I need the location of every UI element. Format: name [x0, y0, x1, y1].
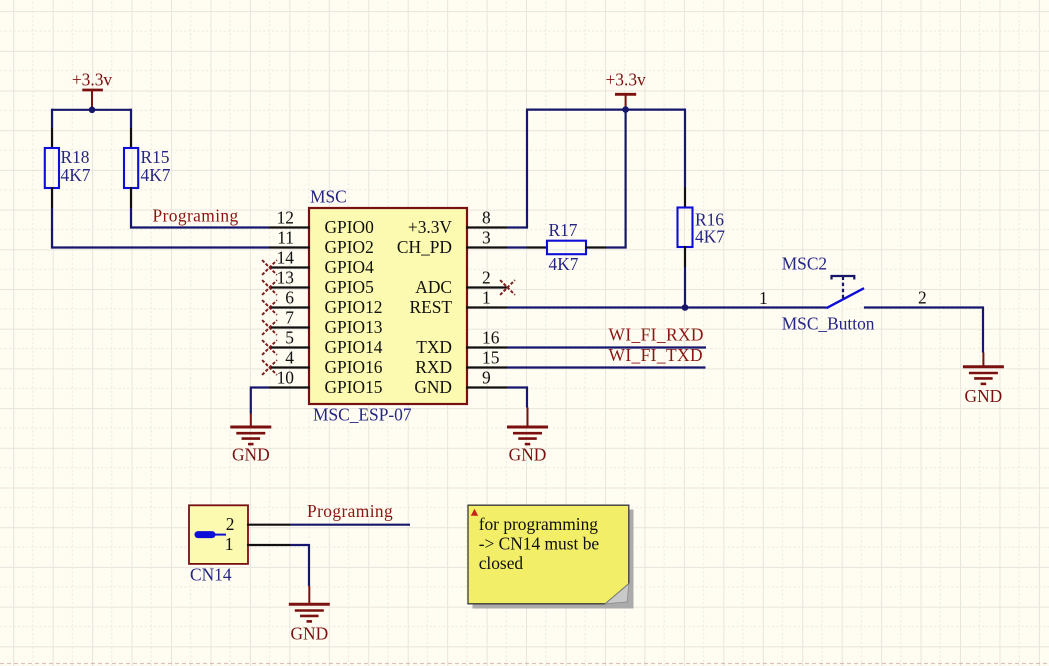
svg-text:1: 1: [759, 288, 768, 308]
pin 4 GPIO16 (left): [269, 347, 383, 377]
pin stub R15 bottom: [130, 187, 132, 208]
connector CN14 body: [189, 505, 248, 564]
junction R16 / REST: [682, 304, 689, 311]
pin 12 GPIO0 (left): [269, 207, 374, 237]
wire pin 9 to ground: [507, 388, 527, 408]
wire R18 bottom to pin 11: [52, 208, 269, 248]
svg-text:Programing: Programing: [307, 501, 393, 521]
pin stub R17 left: [527, 246, 548, 248]
ground at button: [963, 353, 1004, 407]
wire +3.3v rail to R16 top: [526, 110, 685, 188]
svg-text:GND: GND: [965, 386, 1003, 406]
junction at +3.3v left: [89, 107, 96, 114]
power +3.3v (left): [72, 70, 113, 109]
svg-text:RXD: RXD: [415, 357, 452, 377]
pin 5 GPIO14 (left): [269, 327, 383, 357]
resistor R16: [678, 208, 693, 248]
svg-text:-> CN14 must be: -> CN14 must be: [479, 534, 600, 554]
resistor R18: [45, 148, 59, 188]
pin 15 RXD (right): [415, 347, 507, 377]
svg-text:1: 1: [482, 287, 491, 307]
svg-text:16: 16: [482, 327, 500, 347]
wire +3.3v rail to R18 top: [51, 109, 53, 128]
svg-text:6: 6: [285, 287, 294, 307]
pin stub R15 top: [130, 128, 132, 149]
svg-text:4K7: 4K7: [141, 165, 171, 185]
svg-text:2: 2: [482, 267, 491, 287]
svg-text:4K7: 4K7: [695, 226, 725, 246]
note marker triangle: [471, 509, 478, 516]
resistor R15: [124, 148, 138, 188]
pin 8 +3.3V (right): [408, 207, 507, 237]
wire R16 bottom to REST net: [684, 267, 686, 308]
wire +3.3v rail to R15 top: [130, 109, 132, 128]
wire pin 10 to ground: [251, 388, 269, 414]
svg-text:9: 9: [482, 367, 491, 387]
ground below pin 10: [230, 414, 271, 465]
svg-text:WI_FI_RXD: WI_FI_RXD: [609, 325, 704, 345]
svg-text:R15: R15: [141, 147, 170, 167]
svg-text:MSC_Button: MSC_Button: [782, 313, 875, 333]
wire REST (pin 1) to button: [507, 306, 826, 308]
svg-text:ADC: ADC: [415, 277, 452, 297]
svg-text:GPIO2: GPIO2: [325, 237, 374, 257]
wire button to GND corner: [864, 308, 983, 353]
wire TXD net: [507, 346, 706, 348]
wire R15 bottom to pin 12: [131, 208, 269, 228]
wire CN14 pin 1 to ground: [290, 545, 309, 586]
no-connect X at pin 14: [262, 260, 277, 275]
pin 13 GPIO5 (left): [269, 267, 374, 297]
note text: [479, 514, 600, 573]
pin 7 GPIO13 (left): [269, 307, 383, 337]
pin 6 GPIO12 (left): [269, 287, 382, 317]
pin stub R16 top: [684, 188, 686, 209]
svg-text:GND: GND: [290, 623, 328, 643]
svg-text:4: 4: [285, 347, 294, 367]
svg-text:8: 8: [482, 207, 491, 227]
svg-text:3: 3: [482, 227, 491, 247]
svg-text:TXD: TXD: [416, 337, 452, 357]
svg-text:GPIO4: GPIO4: [325, 257, 375, 277]
pin 2 ADC (right): [415, 267, 507, 297]
svg-text:+3.3v: +3.3v: [605, 70, 646, 90]
pin 14 GPIO4 (left): [269, 247, 374, 277]
note shadow: [473, 510, 634, 609]
ground below pin 9: [507, 408, 548, 465]
no-connect X at pin 6: [262, 300, 277, 315]
junction at +3.3v right: [622, 106, 629, 113]
svg-text:+3.3v: +3.3v: [72, 70, 113, 90]
no-connect X at pin 13: [262, 280, 277, 295]
svg-text:11: 11: [277, 227, 294, 247]
svg-text:closed: closed: [479, 553, 524, 573]
no-connect X at pin 7: [262, 320, 277, 335]
svg-text:1: 1: [225, 534, 234, 554]
pin 1 REST (right): [409, 287, 507, 317]
svg-text:GND: GND: [232, 445, 270, 465]
svg-text:Programing: Programing: [153, 206, 239, 226]
no-connect X at pin 2 (ADC): [500, 280, 515, 295]
svg-text:2: 2: [918, 287, 927, 307]
wire pin 8 up to +3.3v rail: [507, 110, 527, 228]
pin stub R16 bottom: [684, 246, 686, 267]
svg-text:10: 10: [277, 367, 295, 387]
wire RXD net: [507, 366, 706, 368]
svg-text:4K7: 4K7: [61, 165, 91, 185]
svg-text:12: 12: [277, 207, 294, 227]
svg-text:GND: GND: [414, 377, 452, 397]
svg-text:R18: R18: [61, 147, 90, 167]
svg-text:CN14: CN14: [190, 565, 232, 585]
svg-text:GPIO5: GPIO5: [325, 277, 375, 297]
no-connect X at pin 5: [262, 340, 277, 355]
pin stub R18 top: [51, 128, 53, 149]
svg-text:5: 5: [285, 327, 294, 347]
wire top rail between R18 and R15: [52, 109, 131, 111]
note folded corner: [605, 584, 628, 604]
resistor R17: [547, 241, 586, 255]
wire R17 to +3.3v junction: [606, 111, 626, 248]
svg-text:15: 15: [482, 347, 500, 367]
IC U? MSC_ESP-07 body: [309, 208, 467, 404]
svg-text:MSC: MSC: [310, 187, 347, 207]
jumper glyph inside CN14: [198, 531, 226, 538]
svg-text:4K7: 4K7: [549, 254, 579, 274]
svg-text:GPIO15: GPIO15: [325, 377, 383, 397]
pin stub R17 right: [585, 246, 606, 248]
pin 1 of CN14: [225, 534, 290, 554]
pin stub R18 bottom: [51, 187, 53, 208]
svg-text:R17: R17: [549, 220, 578, 240]
svg-text:WI_FI_TXD: WI_FI_TXD: [609, 345, 703, 365]
svg-text:GPIO12: GPIO12: [325, 297, 383, 317]
wire pin 3 to R17: [507, 246, 527, 248]
svg-text:MSC_ESP-07: MSC_ESP-07: [313, 405, 412, 425]
svg-text:GPIO16: GPIO16: [325, 357, 383, 377]
svg-text:REST: REST: [409, 297, 452, 317]
svg-text:for programming: for programming: [479, 514, 599, 534]
svg-text:14: 14: [277, 247, 295, 267]
svg-text:2: 2: [226, 514, 235, 534]
pin 16 TXD (right): [416, 327, 507, 357]
wire Programing net from CN14 pin 2: [290, 524, 410, 526]
svg-text:7: 7: [285, 307, 294, 327]
note body: [468, 505, 629, 604]
svg-text:GPIO14: GPIO14: [325, 337, 383, 357]
ground below CN14: [289, 586, 330, 643]
svg-text:GPIO0: GPIO0: [325, 217, 375, 237]
power +3.3v (right): [605, 70, 646, 109]
pin 11 GPIO2 (left): [269, 227, 374, 257]
switch MSC2 (MSC_Button): [826, 276, 864, 308]
svg-text:GPIO13: GPIO13: [325, 317, 383, 337]
svg-text:CH_PD: CH_PD: [397, 237, 452, 257]
no-connect X at pin 4: [262, 360, 277, 375]
pin 9 GND (right): [414, 367, 507, 397]
svg-text:13: 13: [277, 267, 295, 287]
pin 10 GPIO15 (left): [269, 367, 383, 397]
svg-text:+3.3V: +3.3V: [408, 217, 453, 237]
svg-text:MSC2: MSC2: [782, 253, 827, 273]
svg-text:GND: GND: [509, 445, 547, 465]
pin 2 of CN14: [226, 514, 290, 534]
pin 3 CH_PD (right): [397, 227, 507, 257]
